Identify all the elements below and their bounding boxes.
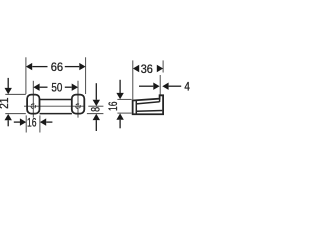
svg-text:21: 21 (0, 97, 11, 109)
svg-text:4: 4 (184, 80, 190, 94)
svg-text:16: 16 (27, 116, 37, 130)
svg-text:66: 66 (51, 60, 64, 74)
svg-text:16: 16 (106, 101, 120, 111)
svg-text:8: 8 (88, 107, 102, 112)
svg-text:36: 36 (141, 62, 153, 76)
svg-text:50: 50 (51, 81, 62, 95)
